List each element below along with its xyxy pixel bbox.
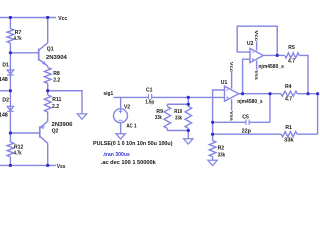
wire to ground R9 R10 xyxy=(187,131,189,139)
svg-text:2N3906: 2N3906 xyxy=(52,122,73,128)
junction dots left block xyxy=(9,16,12,19)
wire R9 R10 bottom xyxy=(167,130,188,132)
wire R5 down to output node xyxy=(299,55,308,93)
resistor R8 xyxy=(44,68,51,84)
svg-text:AC 1: AC 1 xyxy=(126,124,136,130)
svg-text:2.2: 2.2 xyxy=(52,104,59,110)
svg-text:33k: 33k xyxy=(218,152,226,158)
diode D1 xyxy=(7,70,14,74)
wire R1 to right column xyxy=(297,133,318,135)
svg-text:D1: D1 xyxy=(2,62,9,68)
wire R4 to output node xyxy=(297,93,317,95)
ground R9 R10 xyxy=(184,139,193,144)
wire Q1 emitter xyxy=(47,66,49,67)
wire U1 Vcc pin xyxy=(231,71,233,88)
transistor Q1 xyxy=(38,49,40,61)
svg-text:R11: R11 xyxy=(52,97,61,103)
svg-text:Q2: Q2 xyxy=(52,129,59,135)
svg-text:4.7k: 4.7k xyxy=(14,36,22,42)
wire left column xyxy=(9,18,11,29)
wire Q2 collector xyxy=(47,143,49,165)
resistor R10 xyxy=(187,97,189,106)
junction dots middle xyxy=(187,96,190,99)
svg-text:C5: C5 xyxy=(242,114,249,120)
svg-text:R8: R8 xyxy=(53,71,60,77)
ground mid node xyxy=(77,114,86,119)
wire U2 Vcc pin xyxy=(256,41,258,50)
svg-text:148: 148 xyxy=(0,77,8,83)
svg-text:njm4580_s: njm4580_s xyxy=(237,99,263,105)
resistor R12 xyxy=(7,142,14,157)
svg-text:4.7k: 4.7k xyxy=(14,150,22,156)
svg-text:33k: 33k xyxy=(284,137,294,143)
resistor R1 xyxy=(281,132,297,137)
svg-text:njm4580_s: njm4580_s xyxy=(258,64,284,70)
svg-text:4.7: 4.7 xyxy=(285,96,292,102)
wire signal main xyxy=(114,96,149,98)
svg-text:R2: R2 xyxy=(218,145,225,151)
svg-text:Vcc: Vcc xyxy=(58,16,67,22)
op-amp U2 xyxy=(250,48,263,62)
svg-text:2N3904: 2N3904 xyxy=(46,55,67,61)
wire V2 to ground xyxy=(120,123,122,134)
svg-text:4.7: 4.7 xyxy=(288,59,295,65)
resistor R5 xyxy=(285,53,299,58)
svg-text:.tran 300us: .tran 300us xyxy=(103,152,130,158)
resistor R11 xyxy=(47,91,49,95)
wire left mid stub xyxy=(0,90,10,92)
resistor R7 xyxy=(7,29,14,44)
wire Q1 base xyxy=(10,52,38,54)
ground R2 xyxy=(212,157,214,161)
resistor R9 xyxy=(166,104,168,106)
wire U2 Vss pin xyxy=(256,61,258,70)
svg-text:33k: 33k xyxy=(155,115,162,121)
svg-text:U1: U1 xyxy=(221,80,228,86)
svg-text:R5: R5 xyxy=(288,45,295,51)
svg-text:Vss: Vss xyxy=(253,70,259,80)
svg-text:Vcc: Vcc xyxy=(228,62,234,72)
wire U2 feedback loop xyxy=(237,26,277,55)
svg-text:R10: R10 xyxy=(174,109,182,115)
svg-text:C1: C1 xyxy=(146,87,153,93)
resistor R2 xyxy=(209,141,216,157)
svg-text:Vcc: Vcc xyxy=(253,30,259,41)
wire top Vcc rail xyxy=(0,17,56,19)
svg-text:U2: U2 xyxy=(247,41,254,47)
resistor R4 xyxy=(281,91,297,96)
wire U1 inverting input xyxy=(213,90,225,141)
wire R11 bottom xyxy=(47,112,49,116)
svg-text:2.2: 2.2 xyxy=(53,78,60,84)
wire mid node to ground xyxy=(48,91,82,114)
svg-text:sig1: sig1 xyxy=(103,91,113,97)
diode D2 xyxy=(7,106,14,110)
capacitor C5 xyxy=(245,120,247,125)
svg-text:.ac dec 100 1 50000k: .ac dec 100 1 50000k xyxy=(101,160,157,166)
svg-text:Vss: Vss xyxy=(228,111,234,121)
svg-text:V2: V2 xyxy=(124,105,130,111)
junction dots right xyxy=(241,92,244,95)
voltage source V2 xyxy=(120,97,122,108)
svg-text:148: 148 xyxy=(0,112,8,118)
wire U1 output xyxy=(239,93,281,95)
wire Q1 collector xyxy=(47,18,49,44)
op-amp U1 xyxy=(225,86,239,101)
svg-text:D2: D2 xyxy=(2,97,9,103)
svg-text:33k: 33k xyxy=(175,115,182,121)
wire right column up xyxy=(317,94,319,135)
wire Q2 emitter xyxy=(47,116,49,121)
svg-text:R4: R4 xyxy=(285,84,292,90)
wire C5 net xyxy=(213,121,246,123)
svg-text:1.5p: 1.5p xyxy=(145,100,154,106)
wire R9 R10 top xyxy=(167,103,188,105)
svg-text:Vss: Vss xyxy=(57,164,66,170)
wire C5 up to output xyxy=(269,94,271,123)
wire R1 net xyxy=(213,133,282,135)
wire U1 Vss pin xyxy=(231,99,233,110)
svg-text:R1: R1 xyxy=(285,125,292,131)
wire U2 output xyxy=(263,54,285,56)
wire bottom Vss rail xyxy=(0,164,56,166)
svg-text:Q1: Q1 xyxy=(47,46,54,52)
wire U1 out to U2 plus input xyxy=(243,59,250,93)
wire R8 bottom xyxy=(47,83,49,90)
svg-text:PULSE(0 1 0 10n 10n 50u 100u): PULSE(0 1 0 10n 10n 50u 100u) xyxy=(93,141,173,147)
capacitor C1 xyxy=(148,94,150,99)
transistor Q2 xyxy=(39,126,41,137)
ground V2 xyxy=(116,134,125,139)
wire Q2 base xyxy=(10,132,39,134)
